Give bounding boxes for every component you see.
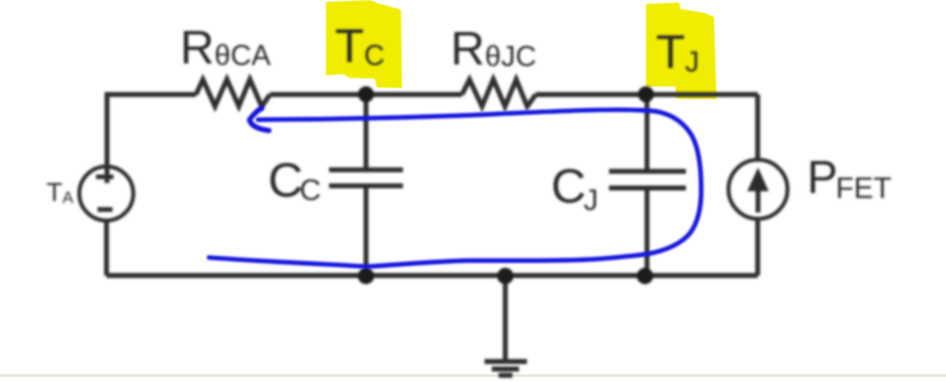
wire: right branch down to current source	[755, 95, 760, 160]
wire: left branch (TA top lead up and across to R_thetaCA)	[107, 95, 196, 184]
wire: bottom rail middle-left segment	[366, 273, 505, 278]
voltage source minus sign	[98, 207, 113, 212]
voltage source TA circle	[79, 167, 133, 221]
wire: R_thetaCA to node TC	[270, 92, 366, 97]
node TC junction dot	[358, 86, 374, 102]
capacitor C_J top lead	[645, 95, 650, 172]
resistor R_thetaJC	[462, 79, 536, 106]
current source arrow shaft	[756, 188, 761, 213]
highlight: node TC marker	[326, 0, 402, 88]
node TJ junction dot	[638, 86, 654, 102]
junction dot: bottom of C_J	[637, 268, 653, 284]
wire: node TJ to top-right corner	[646, 92, 758, 97]
page boundary line at bottom	[0, 374, 946, 377]
wire: node TC to R_thetaJC	[366, 92, 462, 97]
junction dot: ground node	[497, 268, 513, 284]
current source U1 circle	[729, 160, 788, 219]
current source arrow head	[747, 168, 768, 192]
capacitor C_C top lead	[364, 95, 369, 170]
wire: bottom rail middle-right segment	[505, 273, 646, 278]
annotation: blue current loop wire	[209, 110, 701, 267]
wire: bottom rail left segment	[107, 273, 367, 278]
capacitor C_C bottom lead	[364, 186, 369, 276]
wire: R_thetaJC to node TJ	[536, 92, 646, 97]
wire: bottom rail right segment	[646, 273, 758, 278]
wire: bottom rail to TA bottom lead	[104, 220, 109, 275]
ground stem	[503, 276, 508, 362]
annotation: blue arrow head	[250, 108, 270, 131]
junction dot: bottom of C_C	[358, 268, 374, 284]
capacitor C_J bottom lead	[645, 188, 650, 276]
capacitor C_C plates	[329, 170, 403, 186]
ground symbol bars	[485, 362, 528, 376]
resistor R_thetaCA	[196, 79, 270, 106]
voltage source plus sign	[96, 175, 114, 180]
highlight: node TJ marker	[646, 3, 717, 100]
wire: current source to bottom-right corner	[755, 219, 760, 276]
capacitor C_J plates	[609, 171, 686, 188]
